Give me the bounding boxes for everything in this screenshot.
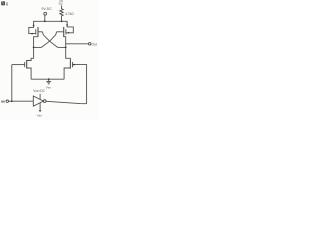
svg-text:51k: 51k xyxy=(59,2,64,6)
svg-text:Vss: Vss xyxy=(37,113,43,117)
svg-text:Out: Out xyxy=(92,42,97,46)
svg-text:Vcc=DC: Vcc=DC xyxy=(33,89,45,93)
svg-text:9V-DC: 9V-DC xyxy=(42,7,53,11)
svg-text:Vss: Vss xyxy=(46,85,52,89)
svg-text:ao: ao xyxy=(1,99,5,103)
svg-text:4.7kΩ: 4.7kΩ xyxy=(65,12,74,16)
